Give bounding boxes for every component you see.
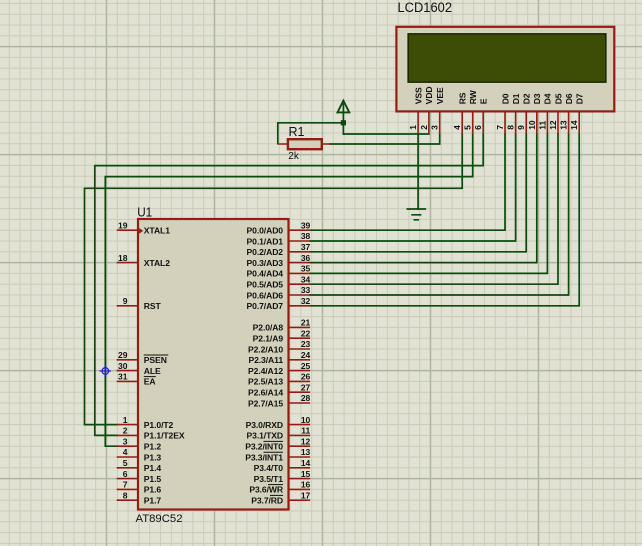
svg-text:11: 11	[301, 426, 310, 436]
wire net VSS: LCD pin1 to ground	[417, 134, 419, 209]
svg-text:AT89C52: AT89C52	[136, 513, 183, 525]
R1 label	[289, 124, 305, 139]
svg-text:12: 12	[548, 120, 558, 130]
svg-text:P2.2/A10: P2.2/A10	[248, 344, 283, 354]
wire net VDD: power rail to LCD pin2	[343, 133, 429, 135]
svg-text:P0.7/AD7: P0.7/AD7	[247, 301, 284, 311]
svg-text:6: 6	[473, 125, 483, 130]
U1 right pin 12 (P3.2/INT0)	[245, 436, 310, 451]
svg-text:18: 18	[118, 253, 128, 263]
svg-text:11: 11	[537, 121, 547, 130]
LCD pin 3 (VEE) label	[430, 87, 445, 130]
U1 right pin 23 (P2.2/A10)	[248, 339, 311, 354]
svg-text:P0.6/AD6: P0.6/AD6	[247, 290, 284, 300]
svg-text:XTAL2: XTAL2	[144, 258, 170, 268]
U1 right pin 25 (P2.4/A12)	[248, 361, 311, 376]
svg-text:4: 4	[452, 125, 462, 130]
R1 value 2k	[288, 151, 300, 162]
svg-text:5: 5	[463, 125, 473, 130]
wire net RS: LCD pin4 - left bus - U1 P1.0	[85, 134, 463, 425]
LCD pin 4 (RS) label	[452, 92, 467, 130]
node marker (blue crosshair) near ALE	[100, 365, 111, 376]
svg-text:RW: RW	[468, 89, 478, 104]
svg-text:34: 34	[301, 274, 311, 284]
svg-text:P1.7: P1.7	[144, 496, 162, 506]
svg-text:17: 17	[301, 490, 311, 500]
svg-text:27: 27	[301, 382, 311, 392]
LCD pin 6 (E) label	[473, 98, 488, 130]
svg-text:P2.6/A14: P2.6/A14	[248, 388, 283, 398]
wire net E: LCD pin6 - left bus - U1 P1.1	[95, 134, 483, 435]
ground symbol	[407, 209, 425, 220]
LCD1602 label	[398, 0, 453, 15]
svg-text:P3.6/WR: P3.6/WR	[249, 485, 284, 495]
U1 right pin 15 (P3.5/T1)	[254, 469, 311, 484]
U1 right pin 32 (P0.7/AD7)	[247, 296, 311, 311]
U1 left pin 9 (RST)	[117, 296, 162, 311]
svg-text:P1.0/T2: P1.0/T2	[144, 420, 174, 430]
U1 part value AT89C52	[136, 513, 183, 525]
svg-text:P3.5/T1: P3.5/T1	[254, 474, 284, 484]
svg-text:P1.6: P1.6	[144, 485, 162, 495]
LCD pin 1 (VSS) label	[408, 87, 423, 130]
svg-text:8: 8	[123, 490, 128, 500]
svg-text:2k: 2k	[288, 151, 300, 162]
U1 right pin 36 (P0.3/AD3)	[247, 253, 311, 268]
svg-text:26: 26	[301, 372, 311, 382]
svg-text:P3.1/TXD: P3.1/TXD	[247, 431, 283, 441]
ic U1 AT89C52 body	[138, 219, 289, 510]
svg-text:25: 25	[301, 361, 311, 371]
U1 left pin 18 (XTAL2)	[117, 253, 170, 268]
U1 right pin 38 (P0.1/AD1)	[247, 231, 311, 246]
svg-text:35: 35	[301, 264, 311, 274]
svg-text:P0.1/AD1: P0.1/AD1	[247, 236, 284, 246]
U1 left pin 30 (ALE)	[117, 361, 161, 376]
wire net D2: LCD pin9 to U1 P0.2	[310, 134, 526, 252]
wire net D0: LCD pin7 to U1 P0.0	[310, 134, 505, 230]
U1 right pin 16 (P3.6/WR)	[249, 480, 310, 495]
wire net D4: LCD pin11 to U1 P0.4	[310, 134, 547, 273]
svg-text:39: 39	[301, 220, 311, 230]
svg-text:D7: D7	[575, 93, 585, 104]
svg-text:1: 1	[123, 415, 128, 425]
wire net D7: LCD pin14 to U1 P0.7	[310, 134, 579, 306]
U1 left pin 31 (EA)	[117, 372, 156, 387]
U1 left pin 7 (P1.6)	[117, 480, 162, 495]
svg-text:2: 2	[419, 125, 429, 130]
U1 right pin 24 (P2.3/A11)	[248, 350, 310, 365]
svg-text:8: 8	[506, 125, 516, 130]
svg-text:7: 7	[123, 480, 128, 490]
svg-text:P2.0/A8: P2.0/A8	[253, 323, 284, 333]
LCD pin 2 (VDD) label	[419, 86, 434, 129]
U1 right pin 35 (P0.4/AD4)	[247, 264, 311, 279]
U1 right pin 13 (P3.3/INT1)	[245, 447, 310, 462]
LCD pin 12 (D5) label	[548, 93, 563, 130]
svg-text:XTAL1: XTAL1	[144, 226, 170, 236]
svg-text:RS: RS	[458, 92, 468, 104]
svg-text:16: 16	[301, 480, 311, 490]
svg-text:VDD: VDD	[424, 86, 434, 104]
svg-text:30: 30	[118, 361, 128, 371]
svg-text:14: 14	[301, 458, 311, 468]
U1 right pin 34 (P0.5/AD5)	[247, 274, 311, 289]
svg-text:PSEN: PSEN	[144, 355, 167, 365]
svg-text:D2: D2	[522, 93, 532, 104]
LCD pin 10 (D3) label	[527, 93, 542, 130]
svg-text:P2.4/A12: P2.4/A12	[248, 366, 283, 376]
wire net D5: LCD pin12 to U1 P0.5	[310, 134, 558, 284]
U1 right pin 39 (P0.0/AD0)	[247, 220, 311, 235]
svg-text:21: 21	[301, 318, 311, 328]
LCD pin 9 (D2) label	[516, 93, 531, 130]
LCD pin 7 (D0) label	[495, 93, 510, 130]
resistor R1	[277, 139, 331, 149]
U1 left pin 6 (P1.5)	[117, 469, 162, 484]
U1 right pin 27 (P2.6/A14)	[248, 382, 311, 397]
svg-text:D5: D5	[553, 93, 563, 104]
svg-text:P2.7/A15: P2.7/A15	[248, 398, 283, 408]
svg-text:22: 22	[301, 328, 311, 338]
U1 label	[137, 204, 152, 219]
junction node at power/R1/VDD	[341, 120, 346, 125]
svg-text:D6: D6	[564, 93, 574, 104]
U1 left pin 19 (XTAL1)	[117, 220, 170, 235]
U1 right pin 37 (P0.2/AD2)	[247, 242, 311, 257]
U1 left pin 8 (P1.7)	[117, 490, 162, 505]
svg-text:P3.4/T0: P3.4/T0	[254, 463, 284, 473]
svg-text:P2.1/A9: P2.1/A9	[253, 334, 284, 344]
LCD pin 8 (D1) label	[506, 93, 521, 130]
svg-text:29: 29	[118, 350, 128, 360]
svg-text:P1.1/T2EX: P1.1/T2EX	[144, 431, 185, 441]
svg-text:U1: U1	[137, 204, 152, 219]
svg-text:P0.5/AD5: P0.5/AD5	[247, 280, 284, 290]
LCD pin 13 (D6) label	[559, 93, 574, 130]
U1 right pin 28 (P2.7/A15)	[248, 393, 311, 408]
svg-text:P1.5: P1.5	[144, 474, 162, 484]
svg-text:14: 14	[569, 120, 579, 130]
svg-text:37: 37	[301, 242, 311, 252]
U1 left pin 3 (P1.2)	[117, 436, 162, 451]
svg-text:VSS: VSS	[413, 87, 423, 104]
svg-text:P0.3/AD3: P0.3/AD3	[247, 258, 284, 268]
svg-text:P2.3/A11: P2.3/A11	[248, 355, 283, 365]
svg-text:36: 36	[301, 253, 311, 263]
svg-text:P2.5/A13: P2.5/A13	[248, 377, 283, 387]
svg-text:P0.0/AD0: P0.0/AD0	[247, 226, 284, 236]
svg-text:13: 13	[301, 447, 311, 457]
svg-text:D0: D0	[500, 93, 510, 104]
svg-text:10: 10	[527, 120, 537, 130]
svg-text:9: 9	[516, 125, 526, 130]
svg-text:9: 9	[123, 296, 128, 306]
wire net VEE: R1 right end to LCD pin3	[330, 134, 440, 144]
svg-text:13: 13	[559, 120, 569, 130]
svg-text:ALE: ALE	[144, 366, 161, 376]
svg-text:P0.4/AD4: P0.4/AD4	[247, 269, 284, 279]
LCD1602 display body	[396, 27, 614, 134]
svg-text:10: 10	[301, 415, 311, 425]
svg-text:7: 7	[495, 125, 505, 130]
svg-text:33: 33	[301, 285, 311, 295]
wire net D3: LCD pin10 to U1 P0.3	[310, 134, 537, 263]
svg-text:P1.3: P1.3	[144, 452, 162, 462]
power symbol VCC (up arrow)	[338, 101, 350, 113]
U1 left pin 1 (P1.0/T2)	[117, 415, 174, 430]
svg-text:1: 1	[408, 125, 418, 130]
wire R1 left end up to power node	[278, 123, 344, 144]
svg-text:P1.4: P1.4	[144, 463, 162, 473]
svg-text:3: 3	[430, 125, 440, 130]
svg-text:28: 28	[301, 393, 311, 403]
U1 right pin 21 (P2.0/A8)	[253, 318, 311, 333]
svg-text:RST: RST	[144, 301, 162, 311]
svg-text:3: 3	[123, 436, 128, 446]
LCD pin 11 (D4) label	[537, 93, 552, 130]
U1 left pin 2 (P1.1/T2EX)	[117, 426, 185, 441]
svg-text:23: 23	[301, 339, 311, 349]
wire net RW: LCD pin5 - left bus - U1 P1.2	[105, 134, 472, 446]
U1 right pin 33 (P0.6/AD6)	[247, 285, 311, 300]
svg-text:31: 31	[118, 372, 128, 382]
U1 right pin 11 (P3.1/TXD)	[247, 426, 311, 441]
svg-text:19: 19	[118, 220, 128, 230]
svg-text:24: 24	[301, 350, 311, 360]
svg-text:32: 32	[301, 296, 311, 306]
U1 left pin 5 (P1.4)	[117, 458, 162, 473]
svg-text:38: 38	[301, 231, 311, 241]
svg-text:2: 2	[123, 426, 128, 436]
svg-text:D3: D3	[532, 93, 542, 104]
svg-text:6: 6	[123, 469, 128, 479]
svg-text:E: E	[479, 98, 489, 104]
wire net D6: LCD pin13 to U1 P0.6	[310, 134, 568, 295]
LCD pin 5 (RW) label	[463, 89, 478, 129]
svg-text:P3.3/INT1: P3.3/INT1	[245, 452, 283, 462]
svg-text:12: 12	[301, 436, 311, 446]
U1 right pin 17 (P3.7/RD)	[251, 490, 310, 505]
U1 right pin 10 (P3.0/RXD)	[246, 415, 311, 430]
U1 right pin 26 (P2.5/A13)	[248, 372, 311, 387]
svg-text:LCD1602: LCD1602	[398, 0, 453, 15]
wire net D1: LCD pin8 to U1 P0.1	[310, 134, 515, 241]
svg-text:4: 4	[123, 447, 128, 457]
wire power stem	[342, 103, 344, 134]
U1 right pin 14 (P3.4/T0)	[254, 458, 311, 473]
svg-text:R1: R1	[289, 124, 305, 139]
svg-text:P3.0/RXD: P3.0/RXD	[246, 420, 283, 430]
svg-text:P3.2/INT0: P3.2/INT0	[245, 442, 283, 452]
svg-text:5: 5	[123, 458, 128, 468]
svg-text:15: 15	[301, 469, 311, 479]
svg-text:P1.2: P1.2	[144, 442, 162, 452]
svg-text:D4: D4	[543, 93, 553, 104]
svg-text:EA: EA	[144, 377, 156, 387]
svg-text:P0.2/AD2: P0.2/AD2	[247, 247, 284, 257]
svg-text:D1: D1	[511, 93, 521, 104]
U1 right pin 22 (P2.1/A9)	[253, 328, 311, 343]
svg-text:P3.7/RD: P3.7/RD	[251, 496, 283, 506]
U1 left pin 29 (PSEN)	[117, 350, 169, 365]
U1 left pin 4 (P1.3)	[117, 447, 162, 462]
LCD pin 14 (D7) label	[569, 93, 584, 130]
svg-text:VEE: VEE	[435, 87, 445, 104]
